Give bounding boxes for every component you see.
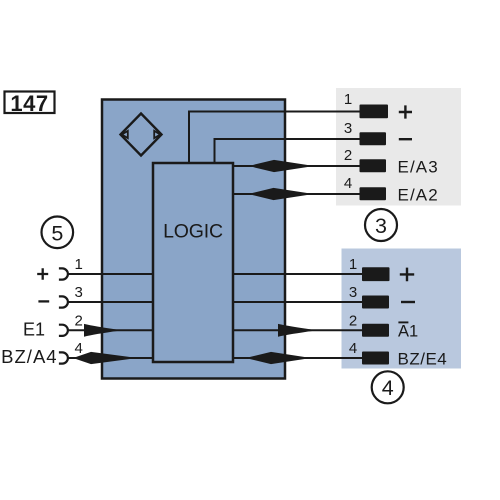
socket contact left pin 1 bbox=[59, 268, 68, 279]
label A1 with overline (connector 4 pin 2) bbox=[398, 322, 418, 340]
wire logic to connector-4 pin 2 (A1 output) bbox=[233, 329, 363, 331]
svg-text:147: 147 bbox=[10, 91, 48, 116]
input arrow on E1 wire bbox=[84, 324, 118, 337]
svg-text:BZ/A4: BZ/A4 bbox=[1, 346, 57, 367]
callout circle 5 bbox=[42, 217, 74, 249]
svg-text:2: 2 bbox=[344, 147, 352, 164]
socket contact left pin 3 bbox=[59, 296, 68, 307]
wire logic to connector-4 pin 4 (BZ/E4) bbox=[233, 357, 363, 359]
socket contact left pin 4 (BZ/A4) bbox=[59, 352, 68, 363]
svg-text:3: 3 bbox=[75, 284, 83, 301]
wire left pin 3 to logic bbox=[68, 301, 153, 303]
svg-text:1: 1 bbox=[75, 256, 83, 273]
label + (left) bbox=[37, 268, 48, 279]
svg-text:BZ/E4: BZ/E4 bbox=[398, 349, 448, 368]
svg-text:3: 3 bbox=[344, 120, 352, 137]
wire logic to connector-3 pin 2 (E/A3) bbox=[233, 165, 361, 167]
svg-text:4: 4 bbox=[382, 376, 394, 400]
svg-text:2: 2 bbox=[349, 312, 357, 329]
label - (left) bbox=[38, 300, 49, 302]
svg-text:3: 3 bbox=[375, 214, 387, 238]
output arrow on A1 wire bbox=[278, 324, 313, 337]
connector block 4 body bbox=[342, 249, 462, 369]
terminal 2 of connector 3 bbox=[360, 159, 387, 172]
svg-text:E1: E1 bbox=[23, 319, 45, 339]
terminal 4 of connector 4 bbox=[362, 352, 389, 365]
wire logic to connector-4 pin 3 bbox=[233, 301, 363, 303]
terminal 2 of connector 4 bbox=[362, 324, 389, 337]
callout circle 4 bbox=[372, 371, 404, 403]
wire logic to connector-3 pin 1 bbox=[189, 112, 361, 164]
terminal 3 of connector 3 bbox=[360, 132, 387, 145]
terminal 3 of connector 4 bbox=[362, 296, 389, 309]
svg-text:4: 4 bbox=[344, 175, 352, 192]
terminal 4 of connector 3 bbox=[360, 187, 387, 200]
diamond symbol (bidirectional indicator) bbox=[121, 114, 162, 156]
bidirectional arrow on E/A2 wire bbox=[248, 188, 314, 200]
bidirectional arrow on E/A3 wire bbox=[249, 160, 315, 172]
bidirectional arrow on BZ/E4 wire bbox=[246, 352, 312, 364]
terminal 1 of connector 3 bbox=[360, 105, 389, 119]
label + (connector 3 pin 1) bbox=[399, 105, 412, 118]
svg-text:E/A3: E/A3 bbox=[398, 157, 439, 176]
svg-text:4: 4 bbox=[75, 340, 83, 357]
label - (connector 4 pin 3) bbox=[401, 301, 415, 303]
connector block 3 body bbox=[336, 88, 461, 206]
sensor housing bbox=[102, 100, 285, 379]
svg-text:A1: A1 bbox=[398, 323, 418, 341]
svg-text:E/A2: E/A2 bbox=[398, 185, 439, 204]
svg-text:3: 3 bbox=[349, 284, 357, 301]
wire left pin 2 to logic bbox=[68, 329, 153, 331]
terminal 1 of connector 4 bbox=[362, 267, 390, 281]
svg-text:4: 4 bbox=[349, 340, 357, 357]
logic block bbox=[153, 163, 233, 362]
wire logic to connector-4 pin 1 bbox=[233, 273, 363, 275]
wire left pin 1 to logic bbox=[68, 273, 153, 275]
callout circle 3 bbox=[365, 209, 397, 241]
wire left pin 4 to logic bbox=[68, 357, 153, 359]
svg-text:1: 1 bbox=[349, 256, 357, 273]
wire logic to connector-3 pin 4 (E/A2) bbox=[233, 193, 361, 195]
svg-text:LOGIC: LOGIC bbox=[163, 220, 223, 242]
svg-text:1: 1 bbox=[344, 91, 352, 108]
svg-text:2: 2 bbox=[75, 312, 83, 329]
label - (connector 3 pin 3) bbox=[399, 138, 412, 140]
bidirectional arrow on BZ/A4 wire bbox=[73, 352, 138, 364]
figure number box 147 bbox=[5, 91, 55, 116]
wire logic to connector-3 pin 3 bbox=[215, 139, 362, 163]
socket contact left pin 2 (E1) bbox=[59, 325, 68, 336]
svg-text:5: 5 bbox=[51, 221, 63, 245]
label + (connector 4 pin 1) bbox=[400, 268, 414, 282]
